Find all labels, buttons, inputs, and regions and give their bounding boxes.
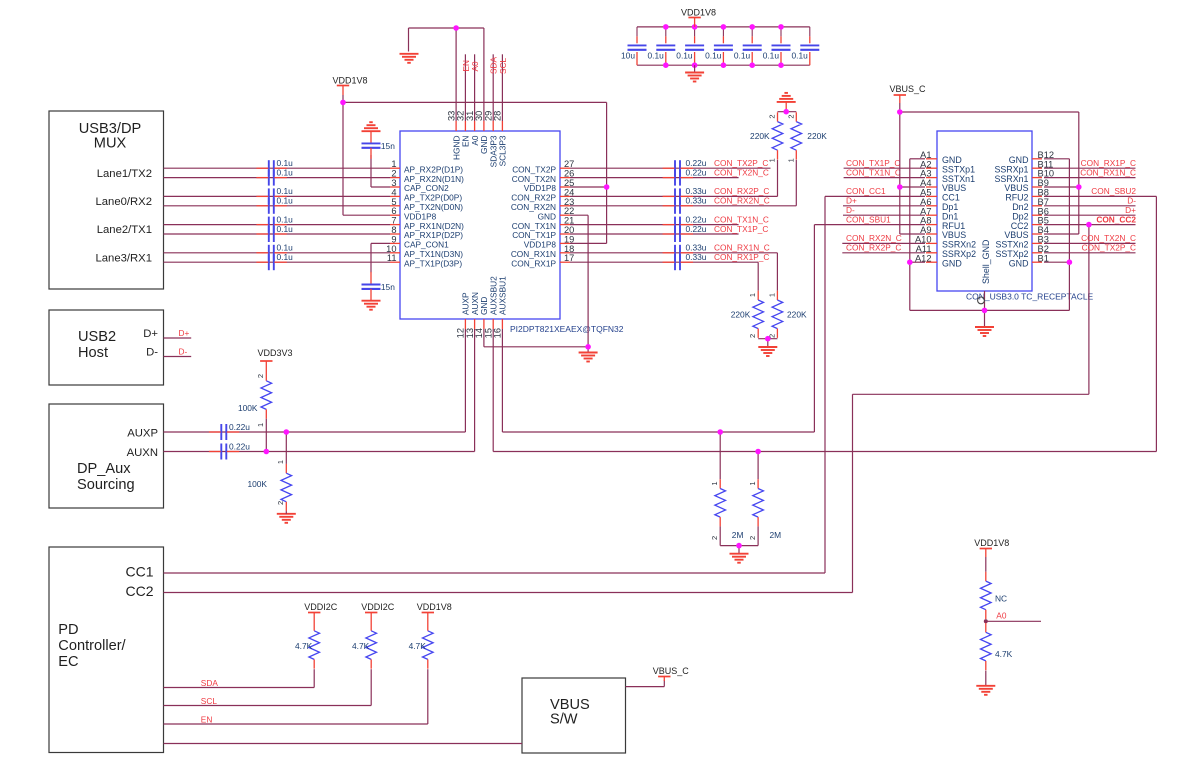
svg-text:15n: 15n — [381, 141, 395, 151]
wire pin9 to C10 — [371, 243, 390, 272]
junction U1 ground — [585, 344, 591, 350]
svg-text:AP_TX1P(D3P): AP_TX1P(D3P) — [404, 258, 462, 268]
svg-text:15n: 15n — [381, 282, 395, 292]
net label D+ (A6) — [846, 196, 857, 206]
svg-text:VDD1V8: VDD1V8 — [974, 538, 1009, 548]
J1 pin numbers — [915, 150, 1054, 263]
wire U1 outputs to series caps — [570, 168, 796, 262]
svg-text:VBUS_C: VBUS_C — [889, 84, 926, 94]
svg-text:AUXN: AUXN — [127, 447, 158, 459]
svg-text:0.33u: 0.33u — [686, 252, 707, 262]
svg-text:4.7K: 4.7K — [352, 641, 370, 651]
junction B9 VBUS — [1076, 184, 1082, 190]
svg-text:CON_CC2: CON_CC2 — [1096, 214, 1136, 224]
resistor R12 NC — [981, 557, 992, 621]
wire net SDA (PD) — [164, 687, 315, 689]
svg-text:USB2: USB2 — [78, 329, 116, 345]
svg-text:VDD1V8: VDD1V8 — [332, 75, 367, 85]
svg-text:1: 1 — [710, 482, 719, 486]
value label 15n (C9) — [381, 141, 395, 151]
power VBUS_C (VBUS S/W) — [653, 666, 690, 681]
net label CON_RX1P_C (B11) — [1081, 158, 1136, 168]
wire HGND/GND top — [409, 28, 484, 121]
svg-text:VDDI2C: VDDI2C — [361, 602, 395, 612]
svg-text:PD: PD — [58, 622, 78, 638]
ground below receptacle — [975, 327, 994, 336]
capacitor C20 0.22u (AUXN) — [209, 444, 239, 460]
svg-text:0.1u: 0.1u — [277, 167, 294, 177]
ground below R7/R8 — [730, 554, 749, 563]
wire net CON_TX1N_C at A3 — [844, 177, 925, 179]
svg-text:Lane3/RX1: Lane3/RX1 — [95, 253, 152, 265]
wire net SDA at U1 — [492, 54, 494, 121]
power VDDI2C (pull-up 1) — [304, 602, 338, 622]
junction VBUS_C top — [897, 109, 903, 115]
wire PD to VBUS S/W — [164, 743, 523, 745]
net label CON_CC1 — [846, 186, 886, 196]
value label 100K (R5) — [238, 403, 258, 413]
svg-text:0.1u: 0.1u — [277, 252, 294, 262]
resistor R1 220K — [772, 112, 783, 196]
svg-text:VDDI2C: VDDI2C — [304, 602, 338, 612]
net label D- (USB2) — [179, 347, 188, 357]
svg-text:0.1u: 0.1u — [277, 224, 294, 234]
ground below U1 — [579, 353, 598, 362]
svg-text:A0: A0 — [470, 61, 480, 72]
value labels 0.1u — [277, 158, 294, 262]
svg-text:EN: EN — [201, 714, 213, 724]
svg-text:2M: 2M — [770, 530, 782, 540]
svg-text:SCL3P3: SCL3P3 — [498, 135, 508, 166]
svg-text:CON_USB3.0 TC_RECEPTACLE: CON_USB3.0 TC_RECEPTACLE — [966, 292, 1094, 302]
R3/R4 pin numbers — [748, 293, 776, 338]
wire net A0 at U1 — [474, 54, 476, 121]
junction pin33 wire — [453, 25, 459, 31]
junction R1/R2 top — [783, 109, 789, 115]
svg-text:2: 2 — [768, 115, 777, 119]
junction A12 GND — [907, 259, 913, 265]
wire R3/R4 bottoms — [758, 339, 777, 347]
svg-text:Lane0/RX2: Lane0/RX2 — [95, 196, 152, 208]
svg-text:DP_Aux: DP_Aux — [77, 461, 131, 477]
wire AUXN — [164, 329, 475, 452]
svg-text:0.1u: 0.1u — [734, 51, 751, 61]
net label CON_TX2P_C (B2) — [1082, 243, 1136, 253]
svg-text:PI2DPT821XEAEX@TQFN32: PI2DPT821XEAEX@TQFN32 — [510, 324, 624, 334]
value label NC — [995, 594, 1007, 604]
value label 4.7K (R10) — [352, 641, 370, 651]
svg-text:1: 1 — [748, 293, 757, 297]
svg-text:CON_TX2N_C: CON_TX2N_C — [714, 167, 769, 177]
svg-text:1: 1 — [256, 423, 265, 427]
svg-text:0.22u: 0.22u — [686, 224, 707, 234]
svg-text:AUXP: AUXP — [127, 428, 158, 440]
svg-text:Lane1/TX2: Lane1/TX2 — [97, 168, 152, 180]
wire VBUS S/W output — [626, 680, 665, 687]
net label CON_RX2P_C (A11) — [846, 243, 901, 253]
svg-text:SCL: SCL — [201, 696, 218, 706]
wire R7/R8 bottoms — [720, 546, 758, 554]
svg-text:0.22u: 0.22u — [229, 441, 250, 451]
net label D- (A7) — [846, 205, 855, 215]
net label CON_SBU1 (A8) — [846, 214, 891, 224]
resistor R4 220K — [772, 253, 783, 338]
power VDD1V8 (top) — [681, 8, 716, 27]
svg-text:Controller/: Controller/ — [58, 638, 126, 654]
svg-text:100K: 100K — [247, 479, 267, 489]
block USB2 Host — [49, 310, 164, 385]
svg-text:1: 1 — [767, 293, 776, 297]
resistor R10 4.7K — [366, 622, 377, 706]
value label 4.7K (R13) — [995, 649, 1013, 659]
value label 220K (R2) — [807, 131, 827, 141]
svg-text:CC1: CC1 — [125, 564, 153, 580]
svg-text:GND: GND — [942, 258, 962, 268]
value label 220K (R3) — [731, 309, 751, 319]
svg-text:MUX: MUX — [94, 136, 127, 152]
value label 4.7K (R11) — [409, 641, 427, 651]
svg-text:4.7K: 4.7K — [995, 649, 1013, 659]
R5 pin numbers — [256, 374, 265, 427]
resistor R5 100K pull-up — [261, 372, 272, 452]
junction R3/R4 bottom — [765, 336, 771, 342]
capacitor C10 15n — [362, 272, 381, 301]
J1 part label — [966, 292, 1094, 302]
block PD Controller/EC — [49, 547, 164, 753]
J1 shell pin — [978, 291, 985, 310]
junction R7/R8 bottom — [736, 543, 742, 549]
ground below R6 — [277, 514, 296, 523]
ground below R3/R4 — [758, 347, 777, 356]
wire net CON_TX1P_C at A2 — [844, 167, 925, 169]
svg-text:1: 1 — [276, 460, 285, 464]
ground top-left — [400, 54, 419, 63]
net label SCL (PD) — [201, 696, 218, 706]
capacitor C9 15n — [362, 143, 381, 158]
power VBUS_C (receptacle) — [889, 84, 926, 103]
capacitor C19 0.22u (AUXP) — [209, 424, 239, 440]
wire net CON_CC2 (B5 to PD CC2) — [164, 225, 1136, 593]
ground below capacitor bank — [685, 65, 704, 81]
wire net AUXSBU1 (pin16 to A8) — [502, 225, 925, 432]
svg-text:100K: 100K — [238, 403, 258, 413]
svg-text:16: 16 — [493, 328, 503, 338]
power VDDI2C (pull-up 2) — [361, 602, 395, 622]
power VDD1V8 (left) — [332, 75, 367, 95]
svg-text:D-: D- — [179, 347, 188, 357]
net label CON_RX2N_C (A10) — [846, 233, 902, 243]
svg-text:0.33u: 0.33u — [686, 196, 707, 206]
value label 2M (R7) — [732, 530, 744, 540]
svg-text:D-: D- — [146, 347, 158, 359]
U1 pin numbers — [386, 111, 574, 339]
svg-text:1: 1 — [748, 482, 757, 486]
svg-text:CON_TX2P_C: CON_TX2P_C — [1082, 243, 1136, 253]
wire AUXP — [164, 329, 466, 432]
svg-text:0.1u: 0.1u — [676, 51, 693, 61]
net label CON_RX1N_C (B10) — [1080, 167, 1136, 177]
wire R6 to ground — [285, 511, 287, 514]
value labels 0.22u/0.33u — [686, 158, 707, 262]
svg-text:220K: 220K — [787, 309, 807, 319]
R6 pin numbers — [276, 460, 285, 505]
svg-text:Lane2/TX1: Lane2/TX1 — [97, 224, 152, 236]
svg-text:2: 2 — [748, 334, 757, 338]
svg-text:D+: D+ — [179, 328, 190, 338]
value labels capacitor bank — [621, 51, 808, 61]
ground (up) above R1/R2 — [777, 93, 796, 112]
R7/R8 pin numbers — [710, 482, 757, 541]
junction B1 GND — [1067, 259, 1073, 265]
svg-text:0.22u: 0.22u — [686, 167, 707, 177]
wire net CON_RX2P_C at A11 — [842, 252, 925, 254]
value label 220K (R1) — [750, 131, 770, 141]
wire net CON_RX1P_C at B11 — [1044, 167, 1136, 169]
svg-text:CC2: CC2 — [125, 583, 153, 599]
power VDD1V8 (pull-up 3) — [417, 602, 452, 622]
svg-text:2: 2 — [767, 334, 776, 338]
junction shell GND — [982, 308, 988, 314]
svg-text:28: 28 — [493, 111, 503, 121]
resistor R6 100K pull-down — [281, 432, 292, 511]
svg-text:1: 1 — [786, 158, 795, 162]
svg-text:Sourcing: Sourcing — [77, 477, 135, 493]
wire net SCL (PD) — [164, 705, 372, 707]
resistor R3 220K — [753, 262, 764, 338]
net label D+ (USB2) — [179, 328, 190, 338]
resistor R11 4.7K — [422, 622, 433, 725]
wire net AUXSBU2 (pin15 to B8) — [493, 196, 1156, 451]
ground below C10 — [362, 301, 381, 310]
svg-text:EC: EC — [58, 654, 78, 670]
svg-text:AUXSBU1: AUXSBU1 — [498, 276, 508, 315]
svg-text:D+: D+ — [143, 328, 158, 340]
net label EN — [461, 60, 471, 72]
power VDD3V3 — [257, 348, 292, 372]
resistor R9 4.7K — [309, 622, 320, 688]
net label CON_TX1N_C (A3) — [846, 167, 901, 177]
junction A4 VBUS — [897, 184, 903, 190]
svg-text:0.1u: 0.1u — [277, 196, 294, 206]
svg-text:VDD1V8: VDD1V8 — [417, 602, 452, 612]
wire U1 GND pins to ground — [484, 215, 588, 352]
U1 part label — [510, 324, 624, 334]
net labels CON_*_C (middle) — [714, 158, 770, 262]
value label 220K (R4) — [787, 309, 807, 319]
net label SDA — [489, 56, 499, 74]
block DP_Aux Sourcing — [49, 404, 164, 508]
wire net D+ at A6 — [843, 205, 925, 207]
wire net CON_TX2N_C at B3 — [1044, 242, 1136, 244]
R1/R2 pin numbers — [768, 115, 796, 163]
svg-text:220K: 220K — [731, 309, 751, 319]
svg-text:2: 2 — [276, 501, 285, 505]
net label CON_TX2N_C (B3) — [1081, 233, 1136, 243]
capacitors C21-C27 bank 10u/0.1u — [628, 45, 820, 49]
wire R1/R2 tops — [778, 111, 797, 113]
wire net EN at U1 — [464, 54, 466, 121]
value label 4.7K (R9) — [295, 641, 313, 651]
svg-text:CON_RX1P: CON_RX1P — [511, 258, 556, 268]
power VDD1V8 (bottom right) — [974, 538, 1009, 557]
svg-text:Shell_GND: Shell_GND — [981, 240, 991, 284]
junction R5 to AUXN — [264, 449, 270, 455]
block USB3/DP MUX — [49, 111, 164, 289]
wire net D- at USB2 Host — [164, 356, 192, 358]
capacitors C11-C18 series 0.22u/0.33u — [663, 160, 693, 270]
svg-text:10u: 10u — [621, 51, 635, 61]
net label CON_SBU2 (B8) — [1091, 186, 1136, 196]
junction R7 to SBU1 line — [717, 429, 723, 435]
wire net EN (PD) — [164, 723, 428, 725]
wire capacitor bank rails and leads — [637, 27, 810, 65]
wire net D+ at USB2 Host — [164, 337, 192, 339]
wire lanes USB3/DP MUX to U1 — [164, 168, 391, 262]
svg-text:0.1u: 0.1u — [791, 51, 808, 61]
svg-text:4.7K: 4.7K — [295, 641, 313, 651]
wire receptacle GND ring — [910, 159, 1070, 327]
svg-text:S/W: S/W — [550, 712, 578, 728]
wire net CON_RX1N_C at B10 — [1044, 177, 1136, 179]
svg-text:CON_RX1P_C: CON_RX1P_C — [714, 252, 769, 262]
svg-text:Host: Host — [78, 345, 108, 361]
value label 15n (C10) — [381, 282, 395, 292]
svg-text:SDA: SDA — [201, 678, 219, 688]
wire net D+ at B6 — [1044, 214, 1136, 216]
svg-text:CON_TX1P_C: CON_TX1P_C — [714, 224, 768, 234]
svg-text:4.7K: 4.7K — [409, 641, 427, 651]
resistor R2 220K — [791, 112, 802, 206]
svg-text:220K: 220K — [807, 131, 827, 141]
svg-text:CON_RX1N_C: CON_RX1N_C — [1080, 167, 1136, 177]
svg-text:VBUS_C: VBUS_C — [653, 666, 690, 676]
value label 0.22u (C19) — [229, 422, 250, 432]
svg-text:2: 2 — [786, 115, 795, 119]
svg-text:VDD3V3: VDD3V3 — [257, 348, 292, 358]
junction B5 CC2 — [1086, 222, 1092, 228]
junction R8 to SBU2 line — [755, 449, 761, 455]
svg-text:CON_SBU1: CON_SBU1 — [846, 214, 891, 224]
capacitors C1-C8 0.1u series on lane wires — [256, 160, 286, 270]
svg-text:A0: A0 — [996, 611, 1007, 621]
svg-text:CON_RX2P_C: CON_RX2P_C — [846, 243, 901, 253]
svg-text:2: 2 — [256, 374, 265, 378]
svg-text:0.1u: 0.1u — [647, 51, 664, 61]
svg-text:2: 2 — [710, 536, 719, 540]
net label SDA (PD) — [201, 678, 219, 688]
svg-text:CON_TX1N_C: CON_TX1N_C — [846, 167, 901, 177]
wire net A0 (node) — [984, 619, 1041, 623]
svg-text:0.1u: 0.1u — [763, 51, 780, 61]
wire net D- at B7 — [1044, 205, 1136, 207]
net label EN (PD) — [201, 714, 213, 724]
svg-text:SCL: SCL — [498, 57, 508, 74]
U1 pin names — [404, 135, 556, 315]
resistor R13 4.7K — [981, 623, 992, 686]
J1 pin names — [942, 155, 1029, 284]
wire VDD1V8 rail to pin6 and pin19/25 — [343, 95, 607, 243]
wire net CON_TX2P_C at B2 — [1044, 252, 1136, 254]
net label CON_TX1P_C (A2) — [846, 158, 900, 168]
wire net CON_RX2N_C at A10 — [842, 242, 925, 244]
junction VDD1V8 rail — [340, 100, 346, 106]
wire net SCL at U1 — [501, 54, 503, 121]
resistor R8 2M — [753, 452, 764, 546]
junction R6 to AUXP — [284, 429, 290, 435]
net label CON_CC2 — [1096, 214, 1136, 224]
net label D- (B7) — [1127, 196, 1136, 206]
value label 2M (R8) — [770, 530, 782, 540]
svg-text:220K: 220K — [750, 131, 770, 141]
net label A0 (node) — [996, 611, 1007, 621]
ground (up) above C9 — [362, 122, 381, 143]
net label SCL — [498, 57, 508, 74]
junction pin25 VDD1P8 — [604, 184, 610, 190]
svg-text:1: 1 — [768, 158, 777, 162]
svg-text:VDD1V8: VDD1V8 — [681, 8, 716, 18]
wire pin3 to C9 — [371, 155, 390, 187]
connector J1 USB3.0 TC receptacle body and pin stubs — [926, 131, 1042, 291]
net label A0 — [470, 61, 480, 72]
svg-text:CON_RX2N_C: CON_RX2N_C — [714, 196, 770, 206]
IC U1 PI2DPT821XEAEX mux body and pin stubs — [390, 121, 570, 329]
wire net VBUS_C rails — [900, 103, 1079, 234]
svg-text:0.22u: 0.22u — [229, 422, 250, 432]
svg-text:0.1u: 0.1u — [705, 51, 722, 61]
svg-text:GND: GND — [1009, 258, 1029, 268]
wire net CON_CC1 (A5 to PD CC1) — [164, 196, 926, 573]
ground below R13 — [976, 686, 995, 695]
junctions capacitor bank — [663, 24, 784, 68]
svg-text:NC: NC — [995, 594, 1007, 604]
svg-text:2M: 2M — [732, 530, 744, 540]
block VBUS S/W — [522, 678, 626, 753]
net label D+ (B6) — [1125, 205, 1136, 215]
value label 0.22u (C20) — [229, 441, 250, 451]
wire net D- at A7 — [843, 214, 925, 216]
svg-text:2: 2 — [748, 536, 757, 540]
resistor R7 2M — [715, 432, 726, 546]
value label 100K (R6) — [247, 479, 267, 489]
